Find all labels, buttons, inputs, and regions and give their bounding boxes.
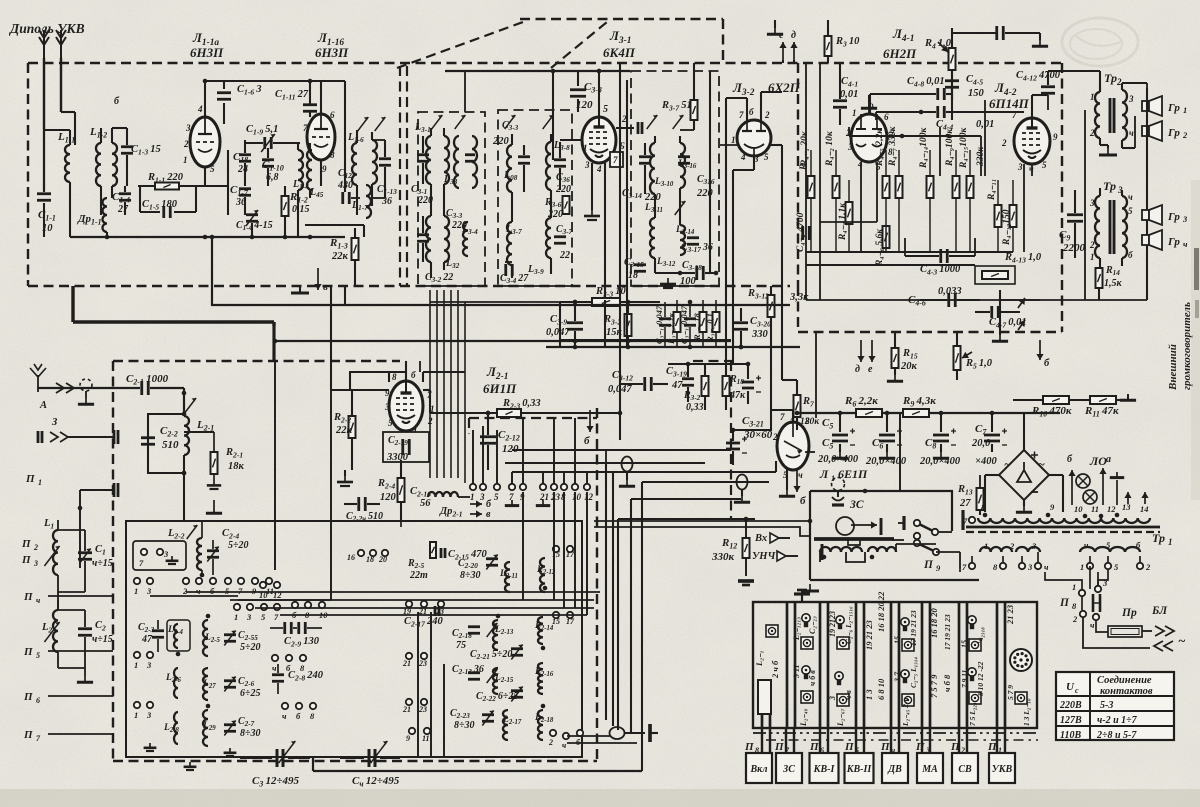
capacitor C2-15	[441, 548, 445, 558]
svg-text:430: 430	[337, 180, 353, 191]
junction dots extra	[203, 79, 208, 84]
svg-text:C3 12÷495: C3 12÷495	[252, 775, 300, 788]
svg-text:36: 36	[381, 196, 392, 207]
speaker Gr2	[1142, 121, 1162, 141]
capacitor C3-19	[682, 379, 694, 386]
svg-text:П: П	[23, 729, 33, 741]
svg-text:11: 11	[422, 734, 430, 743]
svg-text:1: 1	[134, 586, 138, 596]
svg-text:П: П	[915, 741, 925, 753]
svg-text:3: 3	[146, 710, 152, 720]
output transformer windings	[820, 547, 862, 552]
svg-text:5: 5	[603, 104, 608, 115]
svg-text:контактов: контактов	[1100, 686, 1153, 697]
svg-text:23: 23	[418, 705, 427, 714]
svg-text:1 3: 1 3	[864, 689, 874, 700]
anode lead L4-2	[1031, 95, 1033, 118]
svg-text:5: 5	[1042, 160, 1047, 170]
resistor bank R4-11	[995, 205, 1002, 227]
svg-text:56: 56	[420, 498, 431, 509]
mains plug arrows	[1155, 626, 1174, 636]
dashed boundary: detector/audio divider	[797, 63, 799, 286]
svg-text:R5 1,0: R5 1,0	[965, 358, 993, 370]
Tr1 primary winding	[978, 518, 1052, 523]
contacts 15 17 top	[553, 546, 559, 552]
svg-text:17: 17	[566, 550, 575, 559]
svg-text:C₂₋₂₃: C₂₋₂₃	[808, 616, 817, 634]
svg-text:9: 9	[406, 734, 410, 743]
capacitor C3-1	[417, 155, 429, 162]
svg-text:4: 4	[857, 159, 863, 169]
svg-text:L₂₋₄₉: L₂₋₄₉	[799, 708, 808, 727]
loop antenna L2	[53, 610, 58, 652]
svg-text:20,0×400: 20,0×400	[817, 454, 859, 465]
grid lead L3-1	[560, 139, 582, 141]
svg-text:Тр: Тр	[1103, 179, 1116, 193]
wires in bank vertical	[274, 361, 276, 570]
capacitor C4-3	[941, 249, 948, 263]
svg-text:22к: 22к	[335, 425, 353, 436]
svg-text:5: 5	[764, 152, 769, 162]
svg-text:1: 1	[134, 660, 138, 670]
dashed boundary: L3-1 label box top	[520, 18, 723, 20]
resistor R1-3	[352, 238, 359, 260]
svg-text:1: 1	[470, 492, 475, 502]
svg-text:3 7: 3 7	[893, 671, 902, 683]
svg-text:2200: 2200	[1062, 242, 1086, 254]
inductor L2-15	[493, 668, 498, 694]
IF col1 lower coil L32	[426, 216, 431, 262]
svg-text:17: 17	[566, 617, 575, 626]
IF coil pair upper right	[444, 136, 449, 184]
capacitor C1-4	[119, 194, 131, 201]
svg-text:8 10 12 -22: 8 10 12 -22	[976, 661, 985, 696]
svg-text:7: 7	[613, 155, 618, 165]
svg-text:А: А	[39, 400, 47, 411]
capacitor C4-4	[938, 106, 945, 118]
inductor L2-14	[538, 617, 543, 644]
svg-text:0,047: 0,047	[546, 327, 570, 338]
capacitor C1-5	[140, 211, 160, 213]
node row mid	[227, 150, 229, 215]
svg-text:R₃₋₈ 0,1: R₃₋₈ 0,1	[705, 313, 715, 343]
svg-text:в: в	[486, 509, 491, 520]
svg-text:1: 1	[998, 746, 1002, 755]
svg-text:16 18 20 22: 16 18 20 22	[876, 591, 886, 632]
resistor bank R4-7	[896, 176, 903, 198]
svg-text:0,033: 0,033	[938, 286, 962, 297]
svg-text:L₂₋₁: L₂₋₁	[754, 650, 764, 667]
svg-text:П: П	[774, 741, 784, 753]
ground Tr2	[1100, 144, 1108, 146]
svg-text:д: д	[791, 30, 796, 41]
speaker Gr4	[1142, 230, 1162, 250]
dashed boundary: audio box right edge	[1061, 63, 1063, 332]
IF col2 coil upper	[507, 145, 512, 192]
IF col2 right coil lower	[546, 218, 551, 258]
vertical pair to detector	[619, 300, 621, 347]
pin 7 box	[610, 152, 623, 167]
contacts 2 4 6	[550, 730, 556, 736]
resistor R4-13 with frame	[975, 266, 1015, 284]
resistor R3-6	[563, 196, 570, 214]
inductor L2-17	[503, 710, 508, 740]
svg-text:ч-2 и 1÷7: ч-2 и 1÷7	[1097, 715, 1138, 726]
inductor L2-18	[538, 710, 543, 740]
variable capacitor C4	[340, 757, 364, 759]
svg-text:R₄₋₁₂150: R₄₋₁₂150	[1002, 209, 1012, 246]
lamp arrows a b	[1068, 470, 1075, 492]
svg-text:5÷20: 5÷20	[228, 540, 249, 551]
IF col1 lower coil right	[444, 216, 449, 262]
IF col2 right coil upper	[546, 142, 551, 190]
svg-text:б: б	[1044, 358, 1050, 369]
dashed boundary: AM tuner box left edge	[112, 361, 114, 761]
svg-text:ч б в: ч б в	[808, 670, 817, 686]
svg-text:1,5к: 1,5к	[1104, 278, 1123, 289]
svg-text:П: П	[950, 741, 960, 753]
Tr1 core lines	[966, 526, 1160, 529]
band button СВ	[958, 728, 960, 753]
svg-text:R6 2,2к: R6 2,2к	[844, 395, 878, 408]
electrolytic C5	[832, 435, 848, 441]
resistor bank R4-12	[1010, 205, 1017, 227]
grid coupling network wires	[204, 167, 206, 186]
wire tube L2-1 top feeds	[388, 372, 390, 382]
inductor L1-5	[307, 150, 312, 190]
inductor L2-4 box	[167, 620, 190, 651]
svg-text:Пр: Пр	[1121, 607, 1137, 619]
band button МА	[921, 728, 923, 753]
capacitor C3-7	[554, 237, 566, 244]
svg-text:7: 7	[303, 123, 308, 133]
resistor bank R4-9	[953, 176, 960, 198]
svg-text:1: 1	[234, 612, 238, 622]
svg-text:15: 15	[893, 636, 902, 644]
wafer shaft 6	[958, 602, 961, 728]
electrolytic C3-21	[726, 443, 740, 449]
svg-text:1: 1	[984, 541, 988, 551]
capacitor C2-12	[480, 437, 496, 444]
svg-text:Внешний: Внешний	[1167, 344, 1179, 391]
grounds in bank	[144, 743, 157, 751]
Tr1 primary contacts	[969, 517, 975, 523]
svg-text:8: 8	[755, 746, 759, 755]
svg-text:8: 8	[330, 150, 335, 160]
svg-text:СВ: СВ	[958, 764, 972, 775]
svg-text:16 18 20: 16 18 20	[929, 608, 939, 639]
svg-text:14: 14	[1140, 504, 1149, 514]
svg-text:ч: ч	[798, 470, 803, 480]
anode wire of L1-1a	[204, 81, 206, 117]
resistor R11	[1090, 396, 1116, 404]
bridge rectifier	[999, 450, 1049, 500]
Tr3 secondary	[1122, 196, 1127, 258]
resistor R18	[723, 376, 730, 396]
wire anode L1-1b	[320, 81, 322, 114]
svg-text:220: 220	[492, 136, 510, 147]
inductor L2-11	[505, 562, 510, 592]
trimmer C2-55	[224, 635, 236, 642]
arrow b mid	[586, 410, 593, 432]
inductor L2-16	[538, 663, 543, 694]
svg-text:Гр: Гр	[1167, 102, 1180, 114]
IF bus wires	[546, 346, 800, 348]
svg-text:1: 1	[1090, 252, 1095, 262]
svg-text:×400: ×400	[975, 456, 997, 467]
svg-text:3: 3	[1027, 562, 1033, 572]
svg-text:УКВ: УКВ	[992, 764, 1013, 775]
wires audio mid	[806, 299, 1040, 301]
resistor R9	[903, 409, 929, 417]
verticals below contact rows left	[417, 612, 419, 757]
electrolytic C8	[933, 435, 949, 441]
capacitor C1-1	[37, 194, 51, 201]
svg-text:3: 3	[146, 586, 152, 596]
Tr2 core	[1109, 98, 1112, 133]
svg-text:2: 2	[960, 746, 965, 755]
antenna A	[30, 364, 46, 392]
resistor bank R4-5	[883, 176, 890, 198]
inductor L1-2 secondary	[112, 143, 117, 186]
IF3 trimmer marks	[647, 115, 658, 129]
svg-text:П: П	[809, 741, 819, 753]
contact row 4	[282, 703, 288, 709]
Tr1 secondary B	[1080, 547, 1140, 552]
svg-text:L₂₋₆₇: L₂₋₆₇	[836, 708, 845, 727]
capacitor C2-21	[359, 497, 366, 511]
jack circle mid	[622, 457, 633, 472]
voltage table	[1056, 672, 1174, 740]
rotary indicator disc	[1010, 649, 1032, 671]
resistor R2-1	[184, 431, 214, 433]
svg-text:C1-9 5,1: C1-9 5,1	[246, 124, 278, 136]
svg-text:19 21 23: 19 21 23	[864, 620, 874, 651]
svg-text:10: 10	[1074, 504, 1083, 514]
dipole antenna lead a	[39, 30, 49, 58]
triode L1-1a	[190, 117, 220, 167]
svg-text:120: 120	[380, 492, 397, 503]
audio bus rows	[806, 251, 1013, 253]
svg-text:220В: 220В	[1059, 700, 1082, 711]
capacitor C3-9	[567, 323, 583, 330]
capacitor C3-8	[577, 71, 579, 86]
svg-text:L₂₋₄₅ 2-ч: L₂₋₄₅ 2-ч	[901, 697, 910, 727]
contacts 16 18 20 row	[358, 550, 364, 556]
svg-text:0,01: 0,01	[840, 89, 858, 100]
capacitor C1-13	[379, 159, 391, 166]
inductor L2-5	[203, 620, 208, 656]
wire motor to switch	[892, 539, 904, 541]
wire L4-2 cathode	[1031, 164, 1033, 176]
dashed boundary: IF sub-box 1	[418, 112, 485, 286]
svg-text:ч: ч	[1128, 192, 1133, 202]
svg-text:2: 2	[183, 139, 189, 149]
resistor bank R4-15	[967, 176, 974, 198]
capacitor C3-15	[634, 265, 646, 272]
wire long bottom audio	[594, 520, 810, 522]
IF transformer L3-1 upper	[426, 136, 431, 184]
inductor L2-13	[493, 620, 498, 650]
audio section vertical feeds	[860, 162, 862, 252]
svg-text:5-3: 5-3	[1100, 700, 1113, 711]
svg-text:R3 10: R3 10	[835, 36, 860, 48]
svg-text:2: 2	[1145, 562, 1151, 572]
svg-text:2: 2	[772, 432, 778, 442]
svg-text:R₃₋₄ 18: R₃₋₄ 18	[692, 313, 702, 341]
svg-text:16: 16	[347, 553, 355, 562]
svg-text:1: 1	[134, 710, 138, 720]
svg-text:7 9 11: 7 9 11	[960, 670, 969, 688]
svg-text:10: 10	[572, 492, 582, 502]
svg-text:5: 5	[210, 164, 215, 174]
svg-text:6Н3П: 6Н3П	[315, 45, 349, 60]
chassis marks row	[505, 500, 519, 506]
cathode leads L3-1	[591, 163, 593, 210]
svg-text:МА: МА	[921, 764, 938, 775]
triode-heptode L2-1	[389, 381, 423, 431]
svg-text:П: П	[23, 591, 33, 603]
svg-text:3: 3	[185, 123, 191, 133]
svg-text:6: 6	[330, 110, 335, 120]
capacitor C3-14	[639, 157, 651, 164]
svg-text:4: 4	[740, 152, 746, 162]
svg-text:13: 13	[1122, 502, 1131, 512]
svg-text:3: 3	[1128, 94, 1134, 104]
IF col2 trimmer	[505, 115, 516, 129]
svg-text:’ч₂₃₁₈: ’ч₂₃₁₈	[976, 627, 985, 644]
svg-text:8÷30: 8÷30	[460, 570, 481, 581]
coupling cap top right	[952, 32, 996, 34]
svg-text:4: 4	[596, 164, 602, 174]
svg-text:2: 2	[548, 738, 553, 747]
svg-text:П: П	[844, 741, 854, 753]
svg-text:22т: 22т	[409, 570, 428, 581]
wire bus to tank2	[57, 592, 59, 610]
capacitor C3-20	[734, 323, 748, 330]
svg-text:47: 47	[671, 380, 683, 391]
svg-text:27: 27	[117, 204, 129, 215]
svg-text:R₄₋₁₁: R₄₋₁₁	[987, 179, 997, 201]
switch bank outer box	[753, 602, 1037, 728]
capacitor C2-19	[383, 432, 429, 462]
svg-text:6: 6	[884, 112, 889, 122]
wire from bank to table area	[1037, 639, 1056, 641]
svg-text:П: П	[21, 554, 31, 566]
trimmer C2-21	[511, 649, 523, 656]
svg-text:110В: 110В	[1060, 730, 1081, 741]
svg-text:П: П	[880, 741, 890, 753]
svg-text:150: 150	[968, 88, 985, 99]
svg-text:c: c	[1075, 686, 1079, 695]
svg-text:2 ч б: 2 ч б	[770, 660, 780, 679]
svg-text:б: б	[584, 435, 590, 447]
svg-text:9: 9	[322, 164, 327, 174]
wires L2-1 bottom to bank	[400, 521, 402, 527]
Tr1 tap arrows	[1124, 492, 1131, 504]
svg-text:19 2123: 19 2123	[828, 611, 837, 637]
contact row under L2-1	[470, 484, 476, 490]
resistor R1-1	[138, 185, 155, 187]
Tr1 winding right	[1052, 518, 1150, 523]
svg-text:Тр: Тр	[1104, 71, 1117, 85]
capacitor C2-17	[435, 606, 439, 616]
trimmer C2-6	[224, 681, 236, 688]
capacitor C3-2 lower	[417, 235, 429, 242]
svg-text:8÷30: 8÷30	[240, 728, 261, 739]
wire to second triode grid	[309, 81, 311, 104]
Tr2 feed wires	[1084, 110, 1086, 300]
resistor R3-3	[592, 298, 620, 306]
screw symbol column 8	[1015, 692, 1027, 704]
screw symbols column 7	[968, 616, 976, 629]
wafer left shaft	[761, 692, 764, 728]
svg-text:U: U	[1066, 681, 1075, 693]
svg-text:1: 1	[1080, 562, 1084, 572]
capacitor C3-3a	[465, 155, 475, 162]
svg-text:1: 1	[852, 108, 857, 118]
svg-text:120: 120	[576, 99, 593, 111]
duodiode L3-2	[737, 120, 771, 156]
capacitor C1-6	[217, 93, 231, 100]
capacitor C1-11	[303, 105, 317, 112]
inductor L2-7	[203, 668, 208, 700]
svg-text:Вх: Вх	[754, 533, 767, 544]
svg-text:R4 1,0: R4 1,0	[924, 38, 952, 50]
wire stubs above contacts	[472, 430, 474, 483]
svg-text:ч б 8: ч б 8	[942, 674, 952, 692]
phono pickup ZS	[832, 478, 845, 491]
svg-text:127В: 127В	[1060, 715, 1082, 726]
svg-text:20к: 20к	[900, 361, 918, 372]
svg-text:C₄₋₂ 4700: C₄₋₂ 4700	[796, 212, 806, 252]
pentode L3-1	[582, 117, 616, 163]
eye tube L5	[777, 422, 809, 470]
dash-dot line under bank	[753, 732, 1038, 734]
svg-text:1: 1	[731, 135, 736, 145]
svg-text:220: 220	[644, 192, 662, 203]
detector box wires	[668, 363, 748, 365]
wires heterodyne top	[350, 372, 406, 390]
svg-text:4: 4	[197, 104, 203, 114]
chassis top near L3-2	[767, 28, 783, 34]
dashed boundary: AM tuner box top edge	[113, 360, 400, 362]
resistor R15	[892, 348, 899, 368]
svg-text:Cч 12÷495: Cч 12÷495	[352, 775, 400, 788]
resistor bank R4-14	[927, 176, 934, 198]
wires under UKV box	[344, 286, 346, 305]
svg-text:2: 2	[1072, 614, 1078, 624]
dashed boundary: IF sub-box 3	[631, 71, 719, 286]
IF3 coil right lower	[680, 225, 685, 255]
svg-text:0,15: 0,15	[292, 204, 310, 215]
svg-text:C₃₋₁₃0,047: C₃₋₁₃0,047	[679, 305, 689, 344]
arrows b v	[470, 500, 482, 507]
svg-text:2: 2	[1089, 240, 1095, 250]
bridge wires	[1023, 413, 1025, 450]
svg-text:ч: ч	[282, 711, 287, 721]
wafer shaft 2	[819, 602, 822, 728]
svg-text:З: З	[51, 417, 58, 428]
svg-text:ч: ч	[562, 741, 566, 750]
cluster capacitor C3-13	[684, 319, 696, 326]
pot R5	[954, 346, 961, 370]
inductor L2-6	[174, 668, 178, 698]
wire L5 to power	[770, 347, 772, 410]
arrows d e	[857, 340, 864, 362]
svg-text:Гр: Гр	[1167, 127, 1180, 139]
svg-text:R₄₋₁ 20к: R₄₋₁ 20к	[800, 130, 810, 167]
